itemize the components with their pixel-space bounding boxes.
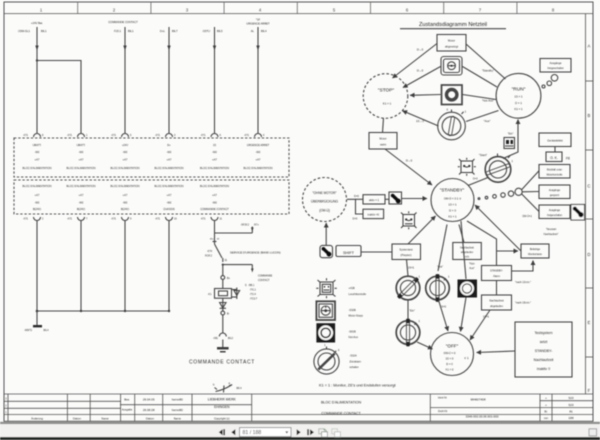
svg-text:0: 0 <box>447 109 449 112</box>
wire node to relay K1 <box>222 279 224 288</box>
svg-text:"OHNE MOTOR": "OHNE MOTOR" <box>312 191 336 195</box>
svg-text:inaktiv !!: inaktiv !! <box>537 367 550 371</box>
node B- <box>221 311 230 315</box>
svg-text:-W2: -W2 <box>35 201 40 205</box>
svg-text:+: + <box>545 396 547 400</box>
svg-text:aktiv = 1: aktiv = 1 <box>369 198 380 202</box>
next-view icon <box>332 429 341 437</box>
node junction bus-col2 <box>80 310 82 312</box>
svg-text:-W2: -W2 <box>79 201 84 205</box>
node junction col1 <box>36 59 38 61</box>
svg-text:3: 3 <box>174 134 176 137</box>
svg-text:"Standby": "Standby" <box>482 69 494 73</box>
dotted trail RUN to freigeschaltet <box>542 75 558 89</box>
state RUN <box>496 73 541 118</box>
svg-text:+A7: +A7 <box>79 158 84 162</box>
wire branch from SF19.2 <box>215 223 260 233</box>
resize grip <box>589 429 597 436</box>
svg-text:D = 0: D = 0 <box>446 362 453 366</box>
svg-text:/7G.1: /7G.1 <box>250 289 257 292</box>
svg-text:b: b <box>213 383 215 387</box>
dotted trail STANDBY to outputs <box>478 188 522 199</box>
transition arrow Motor steht to STANDBY <box>385 149 432 185</box>
svg-text:1S→0: 1S→0 <box>416 119 424 123</box>
node B+ <box>221 276 231 280</box>
arrow alarm to Monitortaste bottom <box>512 261 534 272</box>
wire branch col1-col2 <box>37 61 81 134</box>
svg-text:Gerätedefekt: Gerätedefekt <box>547 139 563 143</box>
svg-text:5: 5 <box>333 7 336 12</box>
wire OM to SHIFT key <box>325 223 327 245</box>
connector X7 pins bottom row <box>23 217 223 221</box>
svg-text:setzt: setzt <box>540 340 548 344</box>
svg-text:E: E <box>588 320 591 325</box>
wire label AL <box>251 29 267 33</box>
svg-text:Ident-Nr.: Ident-Nr. <box>438 397 448 400</box>
wire label D+L <box>160 29 178 33</box>
svg-text:+41B: +41B <box>349 286 355 290</box>
svg-text:K1 = 1: K1 = 1 <box>514 107 523 111</box>
power supply block row2 (dashed) <box>14 180 289 214</box>
svg-text:AL: AL <box>251 29 255 33</box>
svg-text:1: 1 <box>324 345 326 347</box>
svg-text:Nachlaufzeit: Nachlaufzeit <box>460 247 474 250</box>
svg-text:BIL2: BIL2 <box>228 337 234 340</box>
svg-text:"Aus": "Aus" <box>484 119 491 123</box>
svg-text:(OM-Ü): (OM-Ü) <box>319 209 330 213</box>
box inaktiv = 0 <box>363 209 384 218</box>
orientation symbol <box>213 382 242 393</box>
svg-text:1S = 1: 1S = 1 <box>448 203 457 207</box>
svg-text:D+L: D+L <box>160 29 166 33</box>
svg-text:B: B <box>588 113 591 118</box>
svg-text:Zündstart-: Zündstart- <box>350 359 362 363</box>
label Not-Aus quote <box>469 262 475 271</box>
svg-text:-X71: -X71 <box>23 134 29 137</box>
transition arrow standby-button to STOP <box>403 67 441 88</box>
svg-text:*1F: *1F <box>256 18 261 22</box>
svg-text:-X71: -X71 <box>111 134 117 137</box>
svg-text:Systemtest: Systemtest <box>399 248 413 252</box>
svg-text:-SF19.2: -SF19.2 <box>240 223 249 226</box>
svg-text:"OFF": "OFF" <box>446 344 459 349</box>
wire to node B+ <box>222 265 224 276</box>
svg-text:Rückfall unter: Rückfall unter <box>547 169 562 172</box>
svg-text:K1 = 0: K1 = 0 <box>446 368 454 372</box>
wire Geraetedefekt to OK <box>554 147 556 153</box>
wire STANDBY to Start <box>468 178 488 186</box>
wire RUN to standby-button <box>463 67 498 88</box>
svg-text:-K1: -K1 <box>208 293 212 296</box>
svg-text:herrei80: herrei80 <box>172 398 183 402</box>
box Beliebige Monitortaste <box>521 244 549 258</box>
svg-text:SHIFT: SHIFT <box>343 251 355 255</box>
wire label F15.1 <box>114 29 134 33</box>
svg-text:-X71: -X71 <box>155 218 161 221</box>
svg-text:0: 0 <box>338 350 340 352</box>
svg-text:BLOC D'ALIMENTATION: BLOC D'ALIMENTATION <box>244 166 273 170</box>
svg-text:Motor: Motor <box>379 137 386 141</box>
legend motor-stop button <box>316 301 335 320</box>
nav next button <box>297 429 301 435</box>
svg-text:10: 10 <box>174 218 177 221</box>
svg-text:-W2: -W2 <box>123 201 128 205</box>
ground symbol left <box>24 310 49 332</box>
svg-text:BLOC D'ALIMENTATION: BLOC D'ALIMENTATION <box>200 166 229 170</box>
svg-text:O. K.: O. K. <box>550 156 558 160</box>
svg-text:+A7: +A7 <box>167 193 172 197</box>
legend lamp label <box>349 286 367 296</box>
box SHIFT <box>336 246 361 257</box>
box STANDBY-Alarm <box>482 266 512 281</box>
svg-text:"STANDBY": "STANDBY" <box>440 187 465 192</box>
svg-text:OM-Ü = 0: OM-Ü = 0 <box>444 351 456 355</box>
svg-text:3: 3 <box>5 397 7 400</box>
svg-text:BIL1: BIL1 <box>128 29 134 33</box>
svg-text:gesperrt: gesperrt <box>550 194 559 197</box>
svg-text:1: 1 <box>512 160 514 163</box>
relay icon upper <box>458 158 478 181</box>
svg-text:+A7: +A7 <box>123 193 128 197</box>
svg-text:Zeich-Nr.: Zeich-Nr. <box>438 410 448 413</box>
svg-text:BLOC D'ALIMENTATION: BLOC D'ALIMENTATION <box>23 184 52 188</box>
svg-text:8: 8 <box>42 134 44 137</box>
state diagram lower <box>303 120 585 388</box>
key switch K3 <box>396 319 420 346</box>
svg-text:freigeschaltet: freigeschaltet <box>548 66 564 70</box>
wire STOP to Motor steht <box>383 118 384 133</box>
svg-text:D=0: D=0 <box>354 195 359 198</box>
svg-text:"RUN": "RUN" <box>512 86 526 92</box>
transition arrow Monitortaste to STANDBY <box>475 205 521 251</box>
label Neustart Nachlaufzeit <box>544 228 559 236</box>
svg-text:BLOC D'ALIMENTATION: BLOC D'ALIMENTATION <box>155 166 184 170</box>
svg-text:29.04.05: 29.04.05 <box>143 398 155 402</box>
power supply block row1 (dashed) <box>14 138 289 177</box>
key icon box (shift key) <box>389 192 402 204</box>
arrow to Monitortaste left <box>497 250 519 252</box>
key icon box right <box>571 205 585 221</box>
svg-text:1: 1 <box>419 277 421 279</box>
svg-text:520: 520 <box>568 396 573 400</box>
svg-text:K1 = 1: K1 = 1 <box>448 214 457 218</box>
row letter strip <box>586 44 594 394</box>
svg-text:UBATT.: UBATT. <box>33 143 42 147</box>
title Zustandsdiagramm Netzteil <box>400 22 506 29</box>
svg-text:2: 2 <box>5 404 7 407</box>
svg-text:7: 7 <box>479 7 482 12</box>
previous-view icon <box>319 429 328 437</box>
page number combobox <box>240 428 292 437</box>
box Systemtest Piepton <box>392 244 421 260</box>
legend motor-stop label <box>349 308 364 318</box>
wire mslink down <box>467 221 497 295</box>
box Ausgaenge gesperrt <box>539 185 570 199</box>
svg-text:/67+: /67+ <box>254 223 259 226</box>
wire col5 <box>213 27 216 133</box>
svg-text:40a: 40a <box>210 238 214 240</box>
svg-text:1: 1 <box>5 411 7 414</box>
state diagram upper <box>363 22 571 185</box>
wire label /15TU <box>203 29 223 33</box>
wire label /15M-GL1 <box>18 29 47 33</box>
svg-text:Aus": Aus" <box>469 266 474 270</box>
svg-text:"nach 12min.": "nach 12min." <box>515 280 531 284</box>
svg-text:D=0: D=0 <box>473 178 478 181</box>
wire STANDBY to key K2 <box>438 225 447 272</box>
svg-text:D = 1: D = 1 <box>515 101 522 105</box>
transition arrow key icon to STANDBY <box>385 198 427 201</box>
svg-text:6: 6 <box>220 134 222 137</box>
svg-text:freigeschaltet: freigeschaltet <box>547 214 562 217</box>
svg-text:-X71: -X71 <box>155 134 161 137</box>
wire col4 to ground bus <box>168 221 170 312</box>
label wire refs <box>245 284 258 301</box>
svg-text:BIL4: BIL4 <box>44 329 50 332</box>
switch contact K74 <box>205 238 228 262</box>
svg-text:-S32B: -S32B <box>349 308 356 312</box>
transition arrow Testsystem to OFF <box>477 351 516 353</box>
svg-text:+: + <box>545 403 547 407</box>
transition arrow Nachlaufzeit to OFF <box>470 310 490 340</box>
svg-text:B(24V): B(24V) <box>121 207 129 211</box>
ground symbol right <box>217 347 229 353</box>
device box Geraetedefekt <box>539 133 571 147</box>
svg-text:URGENCE ARRET: URGENCE ARRET <box>247 143 270 147</box>
svg-text:BLOC D'ALIMENTATION: BLOC D'ALIMENTATION <box>111 166 140 170</box>
wire branch to COMMANDE CONTACT <box>223 265 273 282</box>
title block <box>4 394 593 421</box>
svg-text:COMMANDE CONTACT: COMMANDE CONTACT <box>200 207 229 211</box>
wire col5 lower <box>214 221 216 241</box>
wire col6 <box>256 27 259 133</box>
relay icon lower <box>401 211 417 229</box>
svg-text:5: 5 <box>130 134 132 137</box>
svg-text:-W2: -W2 <box>35 150 40 154</box>
wire col1 to ground bus <box>36 221 38 312</box>
svg-text:1S = 1: 1S = 1 <box>514 95 523 99</box>
svg-text:D→0: D→0 <box>417 69 424 73</box>
svg-text:Datum: Datum <box>146 416 155 420</box>
svg-text:+A7: +A7 <box>167 158 172 162</box>
svg-text:D+: D+ <box>167 143 171 147</box>
wire RUN to notaus-button <box>463 95 497 103</box>
svg-text:D: D <box>587 252 590 257</box>
box Ausgaenge freigeschaltet lower <box>539 205 570 219</box>
svg-text:+A7: +A7 <box>35 158 40 162</box>
box Nachlaufzeit abgelaufen m/s <box>453 243 482 260</box>
svg-text:-X71: -X71 <box>23 218 29 221</box>
svg-text:Nachlaufzeit: Nachlaufzeit <box>534 358 554 362</box>
svg-text:-W9/T2: -W9/T2 <box>24 329 33 332</box>
node URGENCE ARRET label <box>246 18 270 26</box>
svg-text:+A7: +A7 <box>123 158 128 162</box>
svg-text:-X71: -X71 <box>67 134 73 137</box>
svg-text:/15M-GL1: /15M-GL1 <box>18 29 30 33</box>
state STOP <box>363 74 408 119</box>
svg-text:1: 1 <box>86 134 88 137</box>
svg-text:Alarm: Alarm <box>493 274 500 278</box>
svg-text:-W2: -W2 <box>167 201 172 205</box>
svg-text:-X71: -X71 <box>244 134 250 137</box>
relay coil K1 with diode <box>208 288 240 300</box>
svg-text:Name: Name <box>101 416 109 420</box>
svg-text:4: 4 <box>263 134 265 137</box>
svg-text:-X71: -X71 <box>111 218 117 221</box>
svg-text:D=0: D=0 <box>353 218 358 221</box>
connector X71 pins top row <box>23 134 265 137</box>
svg-text:29.08.08: 29.08.08 <box>143 408 155 412</box>
svg-text:UBATT.: UBATT. <box>77 143 86 147</box>
svg-text:188: 188 <box>568 416 573 420</box>
svg-text:11: 11 <box>220 218 223 221</box>
svg-text:a: a <box>229 382 231 385</box>
svg-text:BLOC D'ALIMENTATION: BLOC D'ALIMENTATION <box>111 184 140 188</box>
svg-text:-K74: -K74 <box>207 250 213 253</box>
svg-text:1: 1 <box>40 7 43 12</box>
key switch Aus <box>438 109 467 140</box>
svg-text:C: C <box>587 184 590 189</box>
svg-text:-X71: -X71 <box>200 218 206 221</box>
svg-text:Testsystem: Testsystem <box>535 331 553 335</box>
svg-text:3346-932.00.00.001-000: 3346-932.00.00.001-000 <box>466 415 499 419</box>
svg-text:B(24V): B(24V) <box>33 207 41 211</box>
svg-text:Änderung: Änderung <box>31 416 43 420</box>
svg-text:Not-Aus: Not-Aus <box>349 335 359 339</box>
diode lower <box>220 298 226 311</box>
svg-text:81: 81 <box>569 409 573 413</box>
svg-text:BIL4: BIL4 <box>261 29 267 33</box>
svg-text:BLOC D'ALIMENTATION: BLOC D'ALIMENTATION <box>200 184 229 188</box>
battery icon D=1 <box>504 132 515 149</box>
svg-text:BLOC D'ALIMENTATION: BLOC D'ALIMENTATION <box>155 184 184 188</box>
svg-text:COMMANDE CONTACT: COMMANDE CONTACT <box>189 360 255 366</box>
event box Motor steht <box>369 133 397 150</box>
svg-text:Ausgänge: Ausgänge <box>549 209 561 212</box>
svg-text:F: F <box>588 388 591 393</box>
transition arrow Start to RUN <box>503 120 518 159</box>
svg-text:STANDBY-: STANDBY- <box>490 269 503 273</box>
svg-text:-W2: -W2 <box>212 150 217 154</box>
wire K1 to K3 <box>407 300 409 322</box>
legend key switch <box>314 345 340 374</box>
svg-text:URGENCE ARRET: URGENCE ARRET <box>246 22 270 26</box>
svg-text:+A7: +A7 <box>35 193 40 197</box>
transition arrow key-Aus to STOP <box>403 111 439 126</box>
svg-text:D = 0: D = 0 <box>449 209 456 213</box>
svg-text:BIL7: BIL7 <box>172 29 178 33</box>
nav last-page button <box>307 429 314 435</box>
svg-text:STANDBY-: STANDBY- <box>535 349 553 353</box>
svg-text:+24V: +24V <box>122 143 128 147</box>
wire col3 to ground bus <box>124 221 126 312</box>
svg-text:COMMANDE CONTACT: COMMANDE CONTACT <box>321 412 361 416</box>
svg-text:"Aus": "Aus" <box>437 265 443 269</box>
transition arrow notaus-button to STOP <box>410 94 441 97</box>
note box Testsystem <box>515 322 572 377</box>
svg-text:-X81: -X81 <box>213 337 219 340</box>
nav first-page button <box>219 429 225 435</box>
svg-text:B8.4: B8.4 <box>237 387 243 390</box>
svg-text:Nachlaufzeit": Nachlaufzeit" <box>544 233 559 236</box>
svg-text:2: 2 <box>113 7 116 12</box>
svg-text:(Piepton): (Piepton) <box>401 253 412 257</box>
svg-text:OM-Ü = 0 1 ∨: OM-Ü = 0 1 ∨ <box>444 197 461 201</box>
svg-text:/7C3.7: /7C3.7 <box>250 298 258 301</box>
wire RUN to key-Aus <box>466 111 499 124</box>
svg-text:-X71: -X71 <box>200 134 206 137</box>
svg-text:CHASSIS: CHASSIS <box>163 207 175 211</box>
svg-text:BLOC D'ALIMENTATION: BLOC D'ALIMENTATION <box>67 166 96 170</box>
svg-text:2: 2 <box>42 218 44 221</box>
svg-text:-W2: -W2 <box>256 150 261 154</box>
transition arrow K3 to OFF <box>417 342 433 349</box>
legend not-aus label <box>349 330 359 340</box>
node junction bus-col4 <box>168 310 170 312</box>
svg-text:1: 1 <box>448 277 450 279</box>
svg-text:BIL5: BIL5 <box>217 29 223 33</box>
svg-text:BIL1: BIL1 <box>41 29 47 33</box>
svg-text:7: 7 <box>86 218 88 221</box>
wire RUN to abgewuergt <box>466 44 506 79</box>
key switch K2 <box>426 275 450 302</box>
node junction col5 <box>222 264 224 266</box>
svg-text:8: 8 <box>552 7 555 12</box>
svg-text:Datum: Datum <box>73 416 82 420</box>
wire connector to ground <box>222 340 224 348</box>
svg-text:Ausgabe: Ausgabe <box>122 408 133 412</box>
svg-text:/15TU: /15TU <box>203 29 210 33</box>
svg-text:F15.1: F15.1 <box>114 29 121 33</box>
svg-text:Bl.: Bl. <box>544 409 547 413</box>
button icon Standby <box>441 57 462 76</box>
svg-text:K1 = 1 : Monitor, ZE's und End: K1 = 1 : Monitor, ZE's und Endstufen ver… <box>319 383 397 387</box>
nav prev button <box>231 429 235 435</box>
state OHNE MOTOR bypass <box>303 178 347 222</box>
svg-text:BLOC D'ALIMENTATION: BLOC D'ALIMENTATION <box>321 400 361 404</box>
svg-text:∨ 1: ∨ 1 <box>464 356 469 360</box>
svg-text:Ausgänge: Ausgänge <box>549 61 562 65</box>
left schematic <box>14 18 289 393</box>
ground bus wire <box>37 310 169 312</box>
output box Ausgaenge freigeschaltet top <box>540 59 571 73</box>
legend key label <box>350 354 362 370</box>
wire col3 <box>123 27 126 133</box>
svg-text:Nachlaufzeit: Nachlaufzeit <box>489 299 504 303</box>
svg-text:/7G.4: /7G.4 <box>250 293 257 296</box>
svg-text:von: von <box>544 417 549 420</box>
svg-text:+A7: +A7 <box>79 193 84 197</box>
svg-text:+24V Bat.: +24V Bat. <box>31 21 43 25</box>
svg-text:BLOC D'ALIMENTATION: BLOC D'ALIMENTATION <box>23 166 52 170</box>
svg-text:"Ein": "Ein" <box>508 132 514 136</box>
svg-text:1: 1 <box>419 321 421 323</box>
svg-text:81 / 188: 81 / 188 <box>243 430 262 436</box>
bracket wire to output boxes <box>522 171 539 218</box>
svg-text:3: 3 <box>186 7 189 12</box>
svg-text:1S = 0: 1S = 0 <box>446 357 454 361</box>
svg-text:-S10A: -S10A <box>350 354 357 358</box>
svg-text:Name: Name <box>174 416 182 420</box>
wire Systemtest to K1 <box>407 260 409 277</box>
svg-text:Motorkontrolle: Motorkontrolle <box>547 174 563 177</box>
svg-text:S /5B.1: S /5B.1 <box>245 284 255 287</box>
node junction bus-col3 <box>124 310 126 312</box>
svg-text:15: 15 <box>213 143 216 147</box>
box O.K. F8 <box>546 152 570 162</box>
svg-text:31: 31 <box>225 260 228 262</box>
svg-text:steht: steht <box>380 143 386 147</box>
